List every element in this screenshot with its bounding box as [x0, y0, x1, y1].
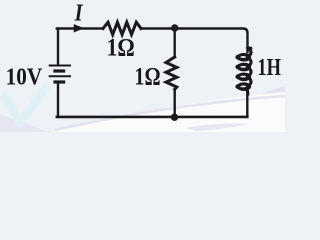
wire: bottom-left vertical (battery bottom lead) [57, 84, 59, 117]
wire: middle branch upper lead [173, 29, 175, 58]
current arrow I [74, 24, 84, 32]
wire: middle branch lower lead [173, 89, 175, 117]
wire: top horizontal left segment [57, 27, 103, 29]
battery long plate 2 [49, 75, 71, 77]
svg-text:1Ω: 1Ω [134, 63, 160, 90]
node A (top junction) [171, 24, 178, 31]
node B (bottom junction) [171, 114, 178, 121]
inductor L1 coil [237, 48, 251, 96]
svg-text:I: I [74, 0, 84, 27]
svg-text:1Ω: 1Ω [107, 35, 135, 62]
wire: top horizontal right segment to corner [141, 29, 248, 53]
battery V1 plates [49, 66, 71, 83]
wire: bottom horizontal [57, 116, 248, 119]
inductor L1 1H lead bottom [246, 95, 248, 117]
resistor R2 1ohm (parallel, vertical zigzag) [166, 57, 177, 89]
battery short plate 1 [53, 69, 65, 72]
battery long plate 1 [49, 65, 71, 67]
svg-text:1H: 1H [257, 54, 281, 81]
resistor R1 1ohm (series, horizontal zigzag) [103, 22, 141, 34]
svg-text:10V: 10V [6, 63, 43, 90]
battery short plate 2 [53, 80, 65, 83]
wire: top-left vertical (battery top lead) [57, 30, 59, 65]
